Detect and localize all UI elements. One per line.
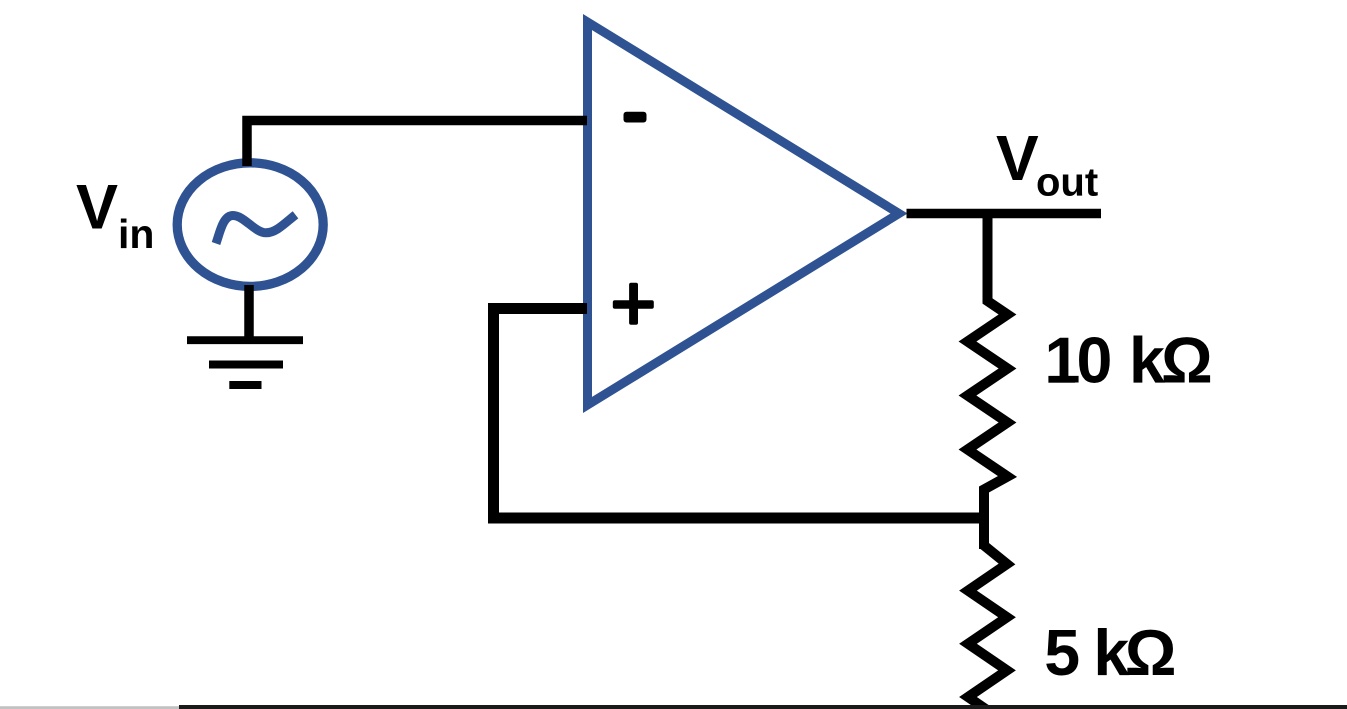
svg-text:in: in bbox=[118, 211, 154, 257]
op-amp U1 minus label bbox=[624, 112, 647, 123]
ground rail (bottom, partially cropped) bbox=[179, 705, 1347, 709]
svg-text:5: 5 bbox=[1044, 617, 1080, 689]
svg-text:Ω: Ω bbox=[1125, 617, 1177, 689]
svg-text:V: V bbox=[76, 173, 118, 243]
wire W4: op-amp output bbox=[907, 209, 1102, 219]
wire W3: non-inverting input to feedback node bbox=[494, 309, 990, 519]
svg-text:Ω: Ω bbox=[1161, 325, 1213, 397]
AC source V1 circle bbox=[177, 163, 323, 287]
wire W5: output node down to R1 bbox=[983, 214, 993, 302]
ground GND1 bar1 bbox=[187, 336, 303, 344]
svg-text:out: out bbox=[1036, 161, 1098, 205]
svg-text:V: V bbox=[996, 122, 1039, 194]
op-amp U1 triangle bbox=[588, 22, 900, 405]
svg-text:1: 1 bbox=[1045, 325, 1081, 397]
resistor R1 zigzag bbox=[968, 298, 1008, 549]
wire W1: Vin top to op-amp inverting input bbox=[247, 121, 587, 167]
resistor R2 zigzag bbox=[968, 545, 1007, 709]
op-amp U1 plus label bbox=[613, 300, 654, 309]
svg-text:0: 0 bbox=[1077, 325, 1113, 397]
AC source sine wave bbox=[216, 215, 296, 244]
svg-text:k: k bbox=[1129, 325, 1165, 397]
slide edge line bottom-left (gray) bbox=[0, 706, 179, 709]
ground GND1 bar2 bbox=[209, 361, 283, 369]
wire W2: Vin bottom to ground bbox=[244, 285, 254, 342]
ground GND1 bar3 bbox=[229, 381, 261, 389]
